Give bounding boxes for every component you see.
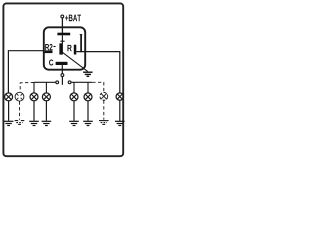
lamp L6 — [84, 93, 92, 101]
flasher relay unit box — [44, 27, 85, 69]
wire lamp L6 to ground — [87, 101, 89, 121]
wire dashed bus to lamp L7 — [92, 82, 104, 92]
wire lamp L4 to ground — [45, 101, 47, 121]
wire lamp L5 to ground — [73, 101, 75, 121]
ground (lamp L2, dashed) — [15, 121, 25, 125]
ground (lamp L6) — [83, 121, 93, 125]
ground (relay) — [83, 72, 93, 76]
switch left terminal — [56, 81, 59, 84]
lamp L3 — [30, 93, 38, 101]
wire stub lamp L3 — [33, 82, 35, 92]
lamp L5 — [70, 93, 78, 101]
ground (lamp L3) — [29, 121, 39, 125]
wire right bus from switch — [71, 81, 92, 83]
R2 leader dash — [53, 46, 55, 48]
battery terminal bar inside relay — [57, 33, 70, 36]
capacitor stem wire to switch terminal — [61, 65, 63, 73]
wire stub lamp L4 — [45, 82, 47, 92]
wire lamp L1 to ground — [8, 101, 10, 121]
resistor R2 bar — [45, 50, 53, 53]
switch actuator knob — [61, 74, 64, 77]
switch actuator stem — [61, 77, 63, 85]
resistor R2 label — [45, 44, 52, 50]
lamp L8 — [116, 93, 123, 100]
wire left bus from switch — [34, 81, 56, 83]
wire from relay left to lamp L1 — [8, 51, 43, 93]
wire dashed lamp L2 to ground — [19, 101, 21, 119]
switch right terminal — [68, 81, 71, 84]
ground (lamp L4) — [42, 121, 52, 125]
output wire from R to right lamp group — [76, 52, 120, 93]
ground (lamp L1) — [4, 121, 14, 125]
relay contact post — [80, 34, 83, 52]
lamp L7 (dashed pilot) — [100, 92, 108, 100]
wire from +BAT down to relay terminal bar — [61, 18, 63, 33]
wire stub lamp L5 — [73, 82, 75, 93]
lamp L4 — [42, 93, 50, 101]
lamp L2 (dashed pilot) — [15, 92, 24, 101]
node +BAT terminal — [61, 15, 81, 22]
relay coil bar — [59, 43, 63, 54]
wire dashed bus to lamp L2 — [20, 83, 34, 93]
ground (lamp L7, dashed) — [99, 121, 109, 125]
lamp L1 — [5, 93, 13, 101]
wire lamp L3 to ground — [33, 101, 35, 121]
wire dashed lamp L7 to ground — [103, 101, 105, 120]
capacitor C bar — [56, 62, 68, 65]
wire lamp L8 to ground — [119, 101, 121, 121]
relay contact arm (diagonal) — [62, 52, 87, 71]
ground (lamp L8) — [115, 121, 125, 125]
polarity mark + — [60, 35, 64, 43]
resistor R label — [67, 45, 71, 51]
capacitor C label — [49, 60, 53, 66]
ground (lamp L5) — [69, 121, 79, 125]
resistor R bar — [74, 45, 77, 55]
wire stub lamp L6 — [87, 82, 89, 93]
